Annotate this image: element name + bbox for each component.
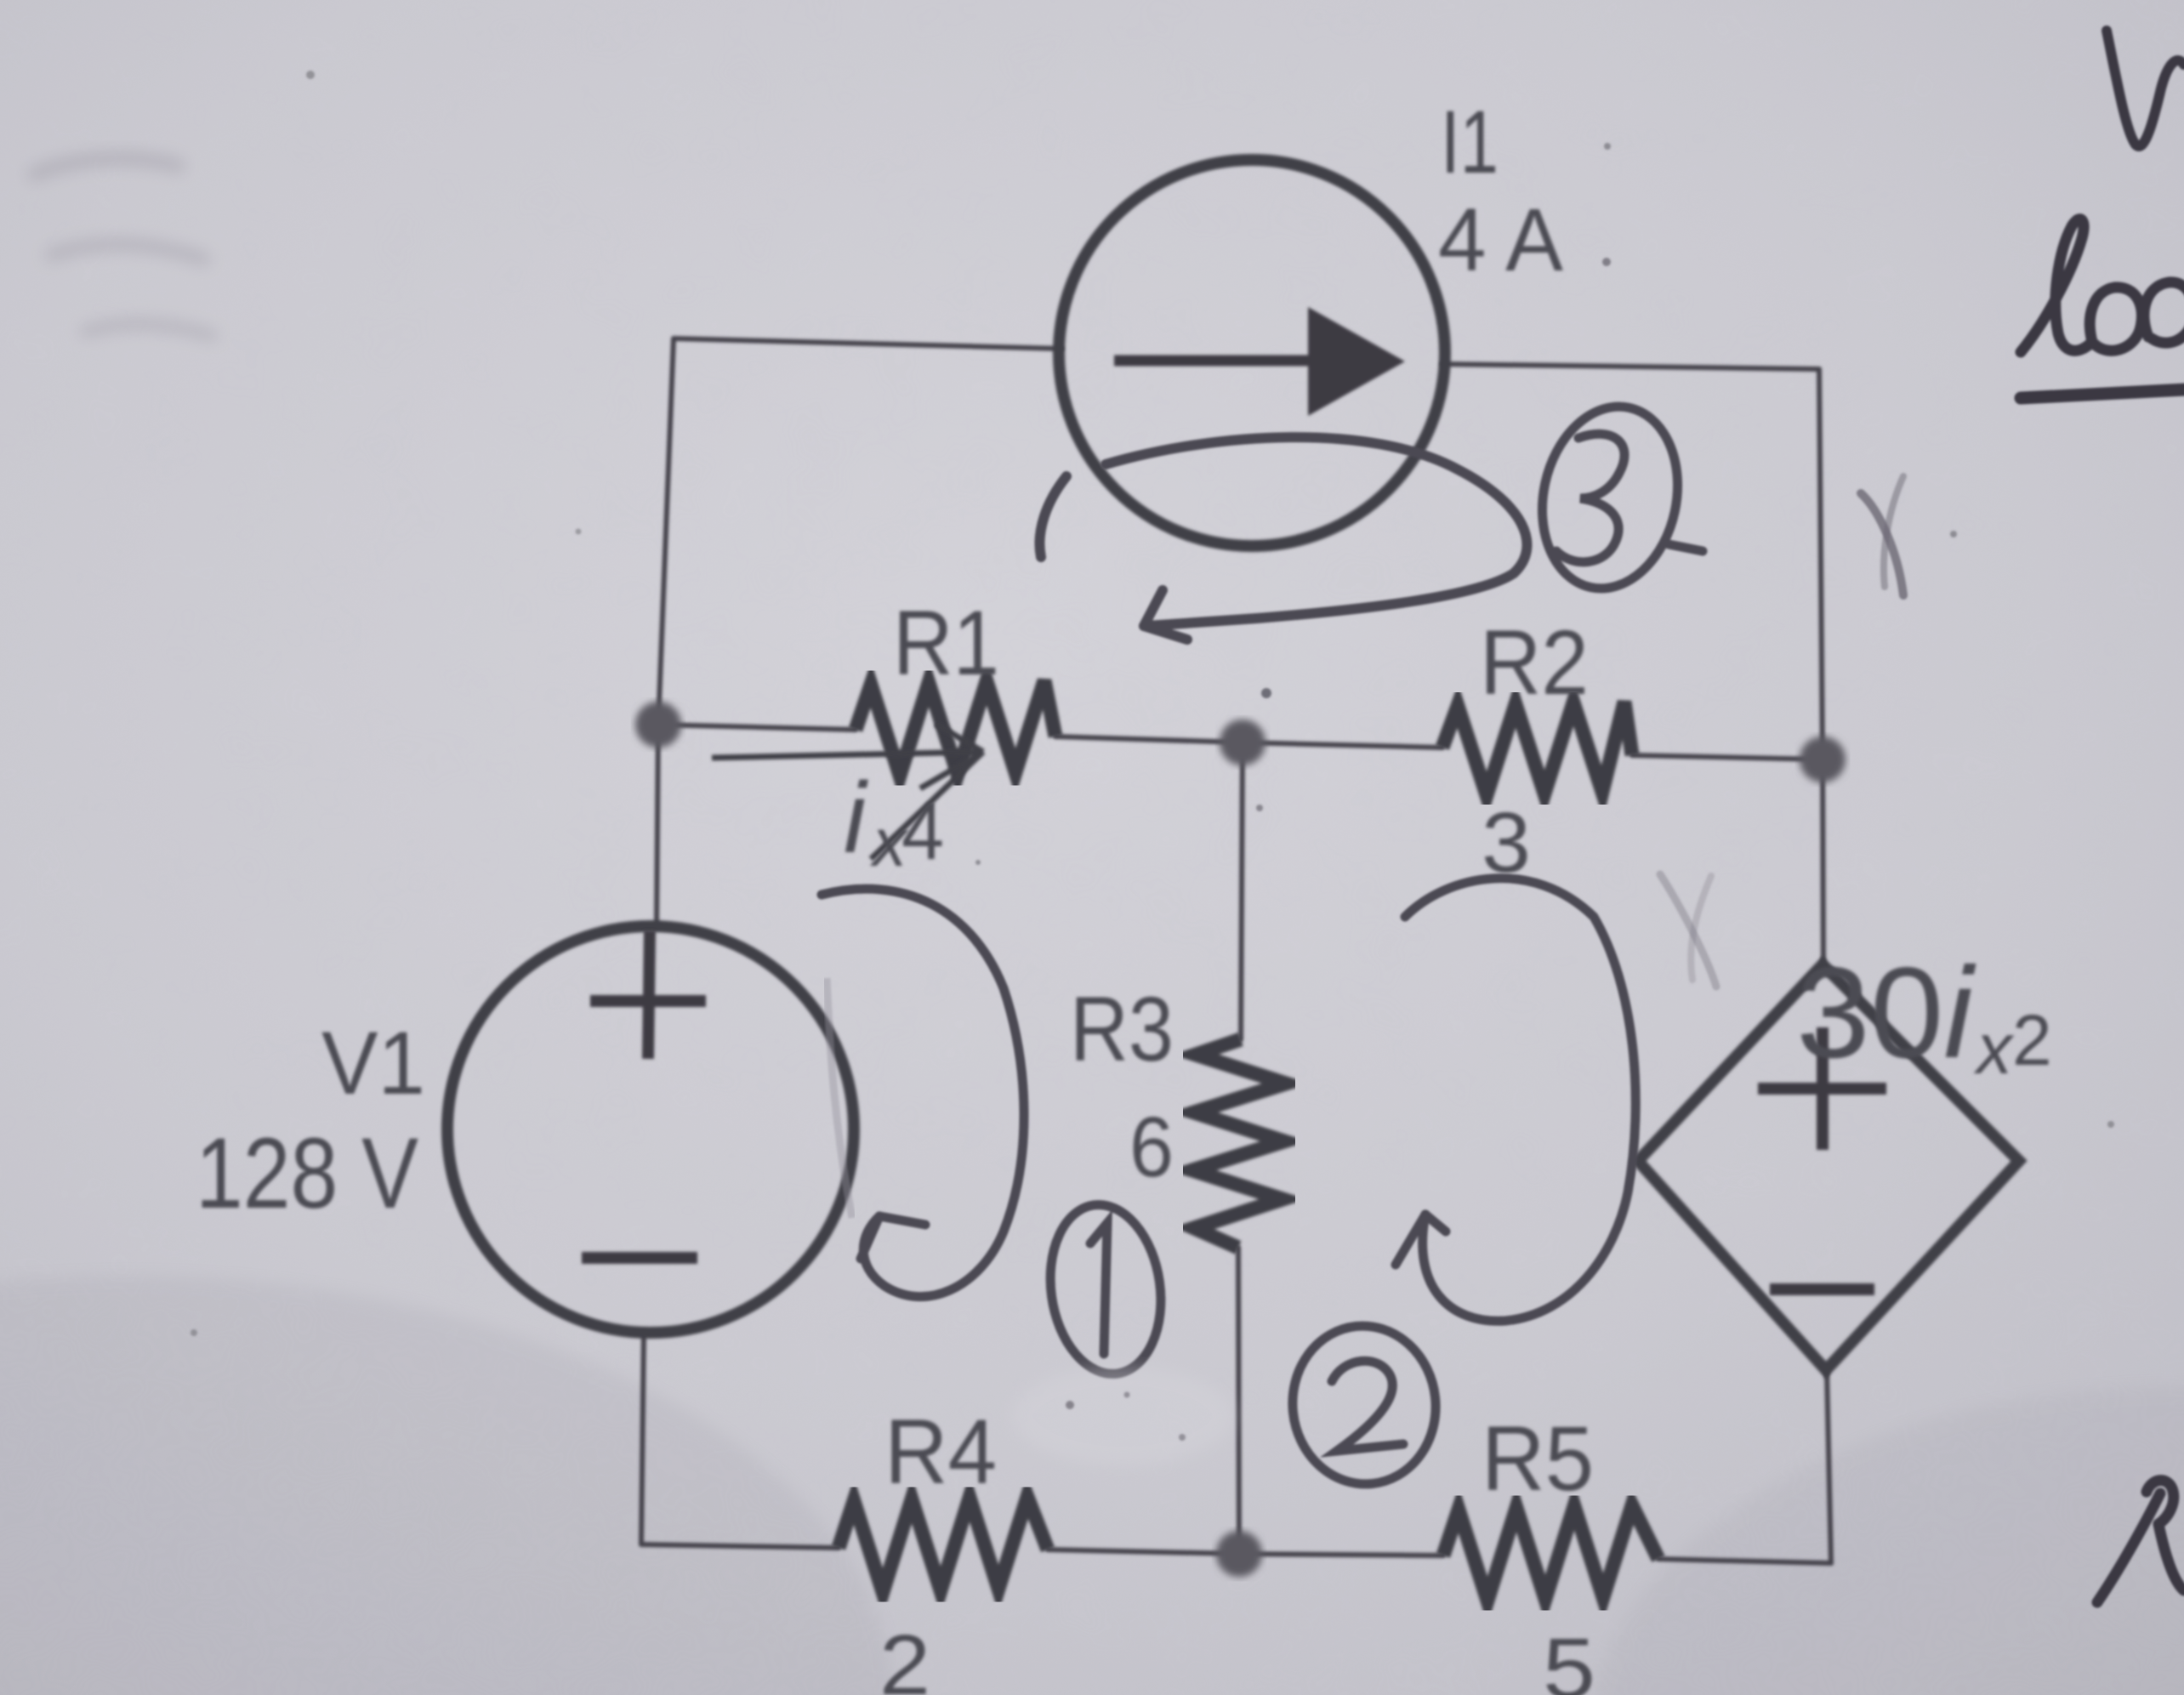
wire mid rail centre [1055, 737, 1442, 748]
wire mid rail right [1632, 755, 1823, 759]
svg-text:R2: R2 [1480, 611, 1589, 714]
wire bottom mid [1048, 1550, 1443, 1556]
svg-text:2: 2 [879, 1618, 930, 1695]
ix arrow [712, 724, 983, 859]
wire mid vertical lower [1238, 1248, 1239, 1554]
svg-text:6: 6 [1129, 1100, 1174, 1195]
hand circled 3 [1526, 394, 1703, 601]
hand loop 1 [822, 889, 1024, 1296]
wire mid vertical [1241, 742, 1243, 1039]
resistor R2 [1442, 702, 1632, 795]
faint top-left smudges [34, 158, 213, 336]
hand loop 2 [1396, 879, 1635, 1322]
svg-text:30i: 30i [1796, 941, 1976, 1085]
V1 plus mark [590, 930, 706, 1059]
svg-text:R5: R5 [1482, 1407, 1594, 1510]
eraser smudge near bottom node [1012, 1367, 1233, 1465]
svg-text:R3: R3 [1070, 977, 1174, 1080]
node C right [1800, 737, 1846, 782]
hand circled 1 [1040, 1197, 1172, 1381]
pencil smudge near R2 right [1660, 476, 1903, 987]
wire mid rail left [658, 725, 856, 730]
svg-text:x: x [1973, 1009, 2015, 1089]
svg-text:R1: R1 [893, 591, 999, 694]
svg-text:i: i [844, 762, 868, 874]
handwriting w top right [2107, 31, 2184, 146]
wire right upper [1819, 369, 1823, 966]
wire bottom left [641, 1544, 839, 1548]
svg-text:128 V: 128 V [196, 1118, 418, 1230]
V1 minus mark [582, 1252, 697, 1264]
wire right lower [1827, 1371, 1831, 1563]
hand faint arc [827, 978, 852, 1218]
svg-text:R4: R4 [884, 1400, 997, 1503]
svg-text:x: x [869, 805, 909, 880]
wire top-left [674, 338, 1061, 349]
hand loop 3 [1039, 437, 1527, 640]
wire left upper [657, 338, 674, 926]
resistor R3 [1192, 1039, 1286, 1248]
resistor R4 [839, 1497, 1048, 1592]
paper specks [191, 71, 2114, 1336]
voltage source V1 [447, 926, 854, 1333]
svg-text:4: 4 [901, 786, 944, 877]
svg-text:5: 5 [1543, 1621, 1595, 1695]
dependent source minus mark [1770, 1283, 1874, 1295]
node A left [635, 702, 681, 748]
hand circled 2 [1285, 1319, 1444, 1492]
handwriting l bottom right [2097, 1481, 2184, 1602]
handwriting loo [2021, 219, 2184, 398]
resistor R5 [1443, 1505, 1658, 1601]
node B mid [1220, 720, 1265, 765]
svg-text:V1: V1 [321, 1014, 425, 1113]
wire bottom [1658, 1559, 1831, 1563]
wire left [641, 1333, 644, 1544]
svg-text:I1: I1 [1441, 93, 1499, 192]
svg-text:2: 2 [2012, 1000, 2052, 1080]
wire top-right [1442, 364, 1819, 369]
current source I1 [1059, 160, 1445, 546]
node D bottom [1216, 1531, 1262, 1577]
wires and print [641, 338, 1831, 1563]
I1 current arrow [1114, 307, 1405, 416]
dependent source plus mark [1758, 1027, 1886, 1150]
resistor R1 [856, 680, 1055, 776]
dependent source 30ix [1638, 964, 2019, 1370]
svg-text:4 A: 4 A [1438, 191, 1563, 290]
